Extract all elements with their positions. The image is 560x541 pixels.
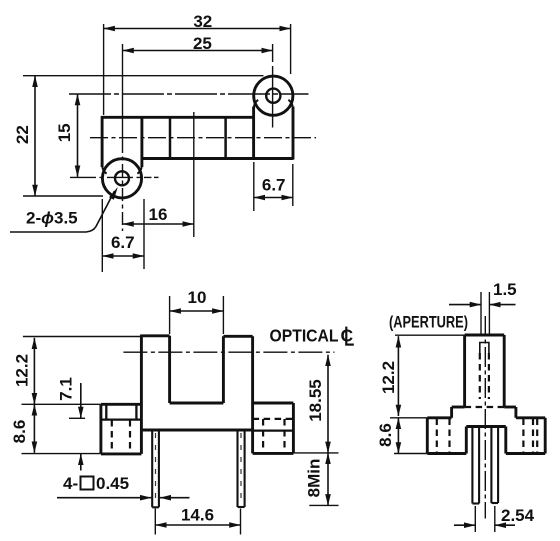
svg-text:8.6: 8.6 xyxy=(10,420,29,444)
svg-text:12.2: 12.2 xyxy=(379,361,398,394)
svg-text:14.6: 14.6 xyxy=(181,505,214,524)
svg-text:2.54: 2.54 xyxy=(501,506,535,525)
svg-text:10: 10 xyxy=(188,288,207,307)
svg-text:(APERTURE): (APERTURE) xyxy=(389,313,468,332)
svg-text:2-ϕ3.5: 2-ϕ3.5 xyxy=(26,209,78,228)
svg-text:12.2: 12.2 xyxy=(13,354,32,387)
svg-text:18.55: 18.55 xyxy=(306,379,325,422)
svg-text:32: 32 xyxy=(193,12,212,31)
svg-text:7.1: 7.1 xyxy=(57,377,76,401)
svg-text:6.7: 6.7 xyxy=(262,175,286,194)
svg-text:6.7: 6.7 xyxy=(111,233,135,252)
svg-text:4-: 4- xyxy=(63,474,78,493)
svg-text:15: 15 xyxy=(55,123,74,142)
svg-text:22: 22 xyxy=(13,125,32,144)
svg-text:16: 16 xyxy=(149,205,168,224)
svg-text:8Min: 8Min xyxy=(305,459,324,498)
svg-text:OPTICAL: OPTICAL xyxy=(270,326,339,346)
svg-text:1.5: 1.5 xyxy=(493,280,517,299)
svg-text:0.45: 0.45 xyxy=(96,474,129,493)
svg-text:25: 25 xyxy=(193,34,212,53)
svg-text:8.6: 8.6 xyxy=(376,423,395,447)
